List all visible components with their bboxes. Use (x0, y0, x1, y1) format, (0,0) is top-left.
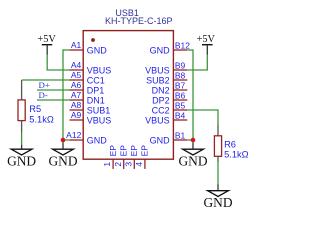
svg-text:2: 2 (113, 162, 123, 167)
svg-text:DN1: DN1 (87, 96, 105, 106)
svg-text:R5: R5 (29, 104, 41, 114)
svg-text:R6: R6 (224, 139, 236, 149)
pin B8 stub (173, 79, 187, 81)
svg-text:5.1kΩ: 5.1kΩ (224, 150, 249, 160)
wire D- to A7 (37, 99, 70, 101)
wire B12 to B1 vertical (192, 49, 194, 140)
pin B4 stub (173, 119, 187, 121)
svg-text:3: 3 (123, 162, 133, 167)
pin A12 stub (70, 139, 84, 141)
connector USB1 body (83, 31, 173, 160)
resistor R5 (18, 80, 54, 133)
pin B12 stub (173, 49, 187, 51)
svg-text:B7: B7 (175, 80, 186, 90)
svg-text:GND: GND (150, 46, 171, 56)
pin EP1 stub (112, 159, 114, 169)
svg-text:GND: GND (87, 136, 108, 146)
ground below B1 (178, 142, 207, 168)
wire A1 horizontal (63, 49, 70, 51)
svg-text:D-: D- (39, 90, 48, 100)
svg-text:A4: A4 (71, 60, 82, 70)
svg-text:SUB2: SUB2 (146, 76, 170, 86)
power flag +5V right (197, 34, 216, 55)
svg-text:1: 1 (102, 162, 112, 167)
pin-1 indicator dot (91, 38, 95, 42)
svg-text:B12: B12 (175, 40, 190, 50)
svg-text:VBUS: VBUS (87, 66, 112, 76)
svg-text:EP: EP (108, 145, 118, 157)
svg-text:+5V: +5V (37, 34, 56, 45)
svg-text:GND: GND (178, 153, 207, 168)
wire A12 horizontal (63, 139, 70, 141)
pin A8 stub (70, 109, 84, 111)
svg-text:4: 4 (134, 162, 144, 167)
svg-text:GND: GND (48, 153, 77, 168)
wire B9 to +5V right (187, 69, 208, 71)
pin A7 stub (70, 99, 84, 101)
junction B1/GND (191, 138, 196, 143)
wire R5 bottom to GND (21, 133, 23, 145)
wire +5V right vertical (green part) (206, 54, 208, 70)
svg-text:VBUS: VBUS (87, 116, 112, 126)
svg-text:GND: GND (203, 195, 232, 210)
pin EP2 stub (123, 159, 125, 169)
svg-text:D+: D+ (39, 80, 50, 90)
svg-text:EP: EP (118, 145, 128, 157)
ground below R5 (7, 145, 36, 169)
svg-text:A5: A5 (71, 70, 82, 80)
svg-text:GND: GND (7, 153, 36, 168)
pin EP3 stub (133, 159, 135, 169)
svg-text:A9: A9 (71, 110, 82, 120)
svg-text:B6: B6 (175, 90, 186, 100)
svg-text:+5V: +5V (197, 34, 216, 45)
svg-text:VBUS: VBUS (145, 66, 170, 76)
wire B5 horizontal (187, 109, 218, 111)
svg-text:CC1: CC1 (87, 76, 105, 86)
pin B1 stub (173, 139, 187, 141)
wire +5V to A4 (47, 69, 70, 71)
svg-text:B1: B1 (175, 130, 186, 140)
svg-text:DP2: DP2 (152, 96, 170, 106)
pin A9 stub (70, 119, 84, 121)
pin A4 stub (70, 69, 84, 71)
pin A1 stub (70, 49, 84, 51)
svg-text:EP: EP (129, 145, 139, 157)
wire +5V left vertical (green part) (46, 54, 48, 70)
svg-text:A12: A12 (66, 130, 81, 140)
wire B1 horizontal (187, 139, 193, 141)
svg-text:GND: GND (87, 46, 108, 56)
svg-text:VBUS: VBUS (145, 116, 170, 126)
svg-text:CC2: CC2 (152, 106, 170, 116)
wire D+ to A6 (37, 89, 70, 91)
wire B12 horizontal (187, 49, 193, 51)
pin B7 stub (173, 89, 187, 91)
pin B5 stub (173, 109, 187, 111)
svg-text:A6: A6 (71, 80, 82, 90)
pin B9 stub (173, 69, 187, 71)
svg-text:A1: A1 (71, 40, 82, 50)
svg-text:DN2: DN2 (152, 86, 170, 96)
svg-text:B4: B4 (175, 110, 186, 120)
svg-text:5.1kΩ: 5.1kΩ (29, 115, 54, 125)
pin EP4 stub (144, 159, 146, 169)
svg-text:B9: B9 (175, 60, 186, 70)
pin B6 stub (173, 99, 187, 101)
wire R6 bottom to GND (217, 162, 219, 185)
svg-text:B8: B8 (175, 70, 186, 80)
power flag +5V left (37, 34, 56, 55)
junction A12/GND (61, 138, 66, 143)
svg-text:GND: GND (150, 136, 171, 146)
svg-text:B5: B5 (175, 100, 186, 110)
wire B5 down to R6 (217, 110, 219, 124)
svg-text:EP: EP (140, 145, 150, 157)
resistor R6 (214, 124, 248, 161)
svg-text:A7: A7 (71, 90, 82, 100)
svg-text:DP1: DP1 (87, 86, 105, 96)
pin A6 stub (70, 89, 84, 91)
wire CC1 to R5 (22, 79, 70, 81)
svg-text:SUB1: SUB1 (87, 106, 111, 116)
svg-text:A8: A8 (71, 100, 82, 110)
wire A1 to A12 vertical (62, 49, 64, 140)
pin A5 stub (70, 79, 84, 81)
svg-text:KH-TYPE-C-16P: KH-TYPE-C-16P (105, 16, 173, 26)
ground below A12 (48, 142, 77, 168)
ground below R6 (203, 184, 232, 210)
